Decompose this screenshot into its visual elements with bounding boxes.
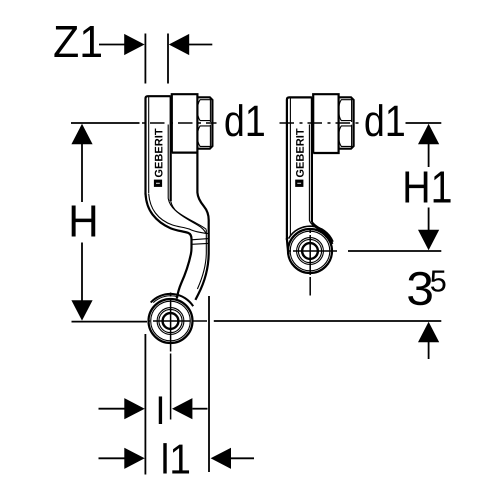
centerline right flange crosshair [287,229,337,296]
dimension d1 label (left fitting) [225,104,263,136]
dimension H lines and arrows [71,123,147,322]
left fitting union nut [197,97,212,148]
dimension Z1 lines and arrows [99,34,212,84]
centerline left flange crosshair [148,293,208,420]
right fitting lower pipe flare [287,221,332,255]
left fitting flange collar [151,294,194,306]
right GEBERIT logotype [295,129,304,187]
right fitting union nut [339,97,354,148]
dimension H label [72,206,96,237]
left fitting flange circles [149,299,193,343]
left fitting bracket plate [146,96,171,201]
dimension l label [159,396,162,424]
centerline top connectors (dash-dot) [142,122,361,124]
right fitting flange collar [289,226,334,242]
dimension d1 label (right fitting) [365,104,403,136]
dimension l1 label [163,443,189,473]
dimension 35 label [408,272,432,305]
dimension l lines and arrows [99,334,208,475]
right fitting pipe sleeve (middle section) [313,94,338,153]
left fitting S-curve pipe [146,153,209,300]
dimension Z1 label [54,26,101,57]
left GEBERIT logotype [154,129,163,187]
dimension 35 line and arrow [214,321,441,359]
right fitting flange circles [288,229,332,273]
dimension H1 label [405,172,450,203]
dimension l1 lines and arrows [99,296,255,472]
dimension H1 lines and arrows [348,123,441,251]
left fitting pipe sleeve (middle section) [172,94,198,152]
right fitting bracket plate [287,97,312,240]
